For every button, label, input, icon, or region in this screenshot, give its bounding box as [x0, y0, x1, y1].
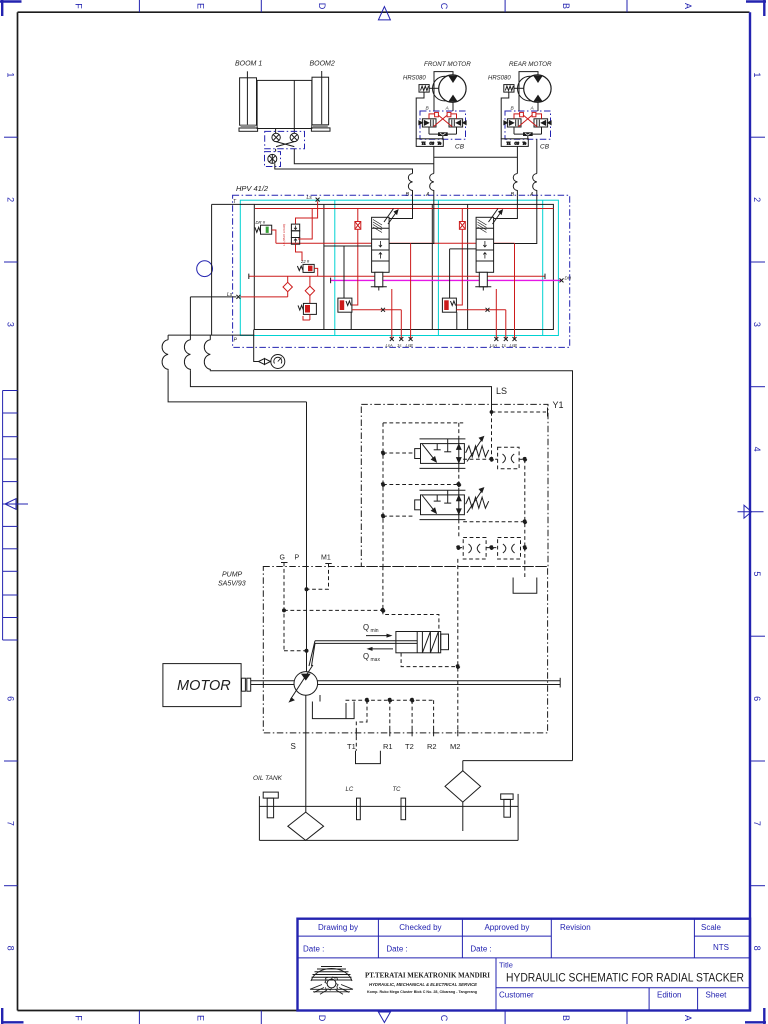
spool valve S1	[372, 217, 390, 272]
zone ticks top	[139, 0, 627, 12]
svg-text:Q: Q	[363, 623, 369, 632]
svg-text:P: P	[234, 338, 238, 344]
pilot cross red front	[429, 112, 457, 126]
svg-text:G: G	[280, 555, 285, 562]
wire A1 internal	[389, 195, 434, 243]
svg-text:LS (MAX LOAD): LS (MAX LOAD)	[282, 224, 286, 246]
svg-text:B: B	[561, 1015, 571, 1021]
svg-text:Drawing by: Drawing by	[318, 923, 358, 932]
svg-text:A: A	[683, 1015, 693, 1021]
orifice O2	[463, 538, 486, 560]
MOTOR box	[163, 664, 241, 707]
company logo	[310, 967, 353, 995]
svg-text:Komp. Ruko Mega Cluster Blok C: Komp. Ruko Mega Cluster Blok C No. 28, C…	[367, 990, 477, 994]
compensator S1	[338, 298, 352, 312]
red pressure rail lower	[249, 274, 545, 279]
red wire Ls to stack	[296, 201, 318, 224]
svg-text:LsA: LsA	[490, 343, 497, 348]
spring housing S1	[371, 272, 387, 290]
label Qmax	[363, 647, 393, 663]
svg-text:A: A	[530, 106, 534, 112]
spool valve S2	[476, 217, 494, 272]
svg-text:DR #: DR #	[256, 220, 266, 225]
red vline left	[298, 209, 312, 240]
zone numbers right	[752, 72, 762, 950]
red rail mid	[276, 242, 515, 244]
tank below T1	[356, 736, 381, 763]
red wire DR out	[272, 230, 276, 243]
svg-text:LC: LC	[346, 787, 354, 793]
hose B2	[513, 174, 517, 196]
svg-text:Date :: Date :	[386, 945, 407, 954]
svg-text:2: 2	[6, 197, 16, 202]
proportional arrows S1	[384, 209, 398, 225]
svg-text:1s: 1s	[397, 343, 402, 348]
pump box	[263, 567, 547, 733]
svg-text:REAR MOTOR: REAR MOTOR	[509, 61, 552, 68]
check valve CV1	[272, 133, 280, 141]
orifice O3	[498, 538, 521, 560]
centring arrow right	[738, 505, 764, 518]
drain collector front	[416, 139, 443, 147]
port labels bottom	[347, 742, 460, 751]
temp gauge TC	[393, 787, 406, 820]
CB valve right rear	[534, 119, 551, 127]
wire B1 internal	[389, 195, 412, 218]
centring arrow left	[2, 499, 28, 510]
return filter	[445, 761, 573, 831]
svg-text:6: 6	[6, 696, 16, 701]
svg-text:2: 2	[752, 197, 762, 202]
wire rear B2 riser	[516, 146, 518, 173]
wire orifice row	[456, 546, 526, 550]
port ticks bottom	[356, 730, 458, 737]
valve REG2	[415, 490, 466, 519]
wire front to rear link	[434, 156, 518, 158]
boom lock valve box	[265, 131, 305, 148]
boom lower valve box	[265, 152, 281, 167]
red Ls drops S1	[392, 243, 411, 339]
CB valve left front	[419, 119, 436, 127]
svg-text:BOOM2: BOOM2	[310, 61, 335, 68]
oil tank body	[259, 794, 518, 841]
cyan section divider 3	[542, 200, 544, 335]
svg-text:max: max	[371, 657, 381, 663]
wire servo bottom pilot	[401, 653, 460, 669]
blue highlight circle	[197, 261, 213, 277]
svg-text:1: 1	[752, 72, 762, 77]
wire S suction	[305, 695, 307, 812]
svg-text:C: C	[439, 3, 449, 10]
svg-text:8: 8	[752, 946, 762, 951]
svg-text:B: B	[511, 106, 515, 112]
drain manifold dashed	[346, 698, 434, 733]
svg-text:7: 7	[752, 821, 762, 826]
pilot cross red rear	[514, 112, 542, 126]
shuttle valve front	[429, 127, 457, 139]
wire B2 internal	[494, 195, 518, 218]
title block	[298, 919, 751, 1011]
wire pilot rail dots	[381, 451, 458, 518]
svg-text:DH: DH	[565, 276, 572, 281]
svg-text:M2: M2	[450, 742, 460, 751]
svg-text:1: 1	[6, 72, 16, 77]
port T stub	[212, 199, 255, 205]
servo rod	[309, 641, 417, 666]
port Ls left	[190, 292, 240, 299]
svg-text:E: E	[195, 1015, 205, 1021]
svg-text:M1: M1	[321, 555, 331, 562]
HPV manifold outline blue	[233, 195, 570, 347]
svg-text:R2: R2	[427, 742, 437, 751]
svg-text:C3: C3	[430, 141, 434, 145]
regulator inner dashed frame	[383, 423, 463, 567]
svg-text:NTS: NTS	[713, 943, 729, 952]
check valve CV3	[268, 154, 277, 163]
servo cylinder	[396, 632, 449, 653]
regulator box	[361, 404, 548, 566]
wire boom drop lines	[276, 129, 295, 134]
suction strainer	[288, 812, 324, 840]
check diamond D1	[283, 276, 292, 297]
svg-text:Title: Title	[499, 961, 513, 970]
svg-text:R1: R1	[383, 742, 393, 751]
black feed S2	[450, 249, 477, 330]
svg-text:LsA: LsA	[386, 343, 393, 348]
proportional arrows S2	[489, 209, 503, 225]
svg-text:Y1: Y1	[553, 400, 564, 410]
svg-text:LsB: LsB	[510, 343, 517, 348]
HPV black housing	[254, 204, 553, 329]
svg-text:B: B	[561, 3, 571, 9]
hose B1	[408, 174, 412, 196]
svg-text:LS: LS	[496, 386, 507, 396]
CB box rear	[505, 111, 551, 139]
label PUMP SA5V/93	[218, 572, 246, 588]
node pump outlet	[305, 649, 309, 653]
svg-text:TC: TC	[393, 787, 402, 793]
red orifice S2	[456, 209, 465, 306]
cylinder BOOM2 barrel	[311, 71, 330, 131]
svg-text:Edition: Edition	[657, 991, 681, 1000]
svg-text:1s: 1s	[502, 343, 507, 348]
CB valve left rear	[504, 119, 521, 127]
svg-text:F: F	[74, 1015, 84, 1021]
spring REG2	[466, 488, 489, 513]
wire regulator pilot to servo	[284, 567, 439, 632]
node LS junction	[490, 408, 548, 417]
case drain bracket	[312, 695, 354, 719]
relief valve bottom left	[298, 303, 316, 320]
svg-text:HYDRAULIC SCHEMATIC FOR RADIAL: HYDRAULIC SCHEMATIC FOR RADIAL STACKER	[506, 973, 744, 985]
svg-text:Q: Q	[363, 652, 369, 661]
svg-text:CB: CB	[455, 144, 465, 151]
housing section line 2	[431, 204, 433, 329]
wire M2 dashed	[457, 559, 459, 733]
red orifice S1	[352, 209, 361, 306]
svg-text:HYDRAULIC, MECHANICAL & ELECTR: HYDRAULIC, MECHANICAL & ELECTRICAL SERVI…	[369, 982, 478, 987]
cylinder BOOM1 barrel	[239, 71, 258, 131]
wire motor rear bottom	[537, 102, 539, 111]
svg-text:Scale: Scale	[701, 923, 722, 932]
svg-text:FRONT MOTOR: FRONT MOTOR	[424, 61, 471, 68]
red Ls drops S2	[496, 243, 514, 339]
svg-text:To: To	[438, 141, 442, 145]
brake front	[419, 85, 439, 93]
pump circle	[288, 665, 317, 703]
port P	[295, 555, 309, 592]
LS stack valve	[291, 224, 299, 244]
wire A2 internal	[494, 195, 537, 243]
svg-text:D: D	[317, 1015, 327, 1022]
hose A2	[533, 174, 537, 196]
left graduation scale	[3, 391, 18, 641]
CB valve right front	[449, 119, 466, 127]
valve DR	[255, 220, 272, 234]
svg-text:S: S	[291, 742, 296, 751]
wire brake drain rear	[501, 92, 509, 139]
check diamond D2	[305, 276, 314, 303]
svg-text:Ls: Ls	[307, 195, 313, 201]
tank symbol regulator	[513, 578, 537, 594]
port G	[280, 555, 288, 651]
svg-text:Checked by: Checked by	[399, 923, 441, 932]
wire rear A2 riser	[536, 139, 538, 173]
spool section 2	[442, 195, 536, 348]
svg-text:T1: T1	[422, 141, 426, 145]
wire to lower valve	[275, 149, 277, 152]
svg-text:BOOM 1: BOOM 1	[235, 61, 262, 68]
red compensator line S2	[456, 308, 505, 312]
port labels S1	[386, 343, 413, 348]
wire Ls hose line	[184, 297, 491, 411]
cylinder body frame	[257, 80, 312, 128]
wire REG1 out	[463, 457, 497, 461]
level gauge LC	[346, 787, 361, 820]
shuttle valve rear	[514, 127, 542, 139]
pilot cross lines	[276, 142, 294, 147]
wire pump outlet	[306, 402, 308, 672]
port labels HPV top	[406, 192, 535, 198]
svg-text:SA5V/93: SA5V/93	[218, 581, 246, 588]
svg-text:4: 4	[752, 447, 762, 452]
wire LS pilot down	[491, 412, 493, 459]
red supply rail	[255, 208, 553, 210]
wire G drain dashed	[284, 650, 307, 652]
wire P hose line	[162, 335, 306, 402]
wire front A riser	[433, 146, 435, 173]
magenta DH line	[331, 276, 572, 284]
wire tank drain	[524, 548, 526, 578]
housing section line 3	[467, 204, 469, 329]
cyan section divider 2	[437, 200, 439, 335]
svg-text:Revision: Revision	[560, 923, 591, 932]
svg-text:A: A	[683, 3, 693, 9]
pressure gauge	[271, 355, 285, 369]
svg-text:D: D	[317, 3, 327, 10]
svg-text:Approved by: Approved by	[484, 923, 529, 932]
svg-text:HRS080: HRS080	[488, 76, 511, 82]
port Ls top	[307, 195, 320, 201]
hose A1	[430, 174, 434, 196]
svg-text:PUMP: PUMP	[222, 572, 243, 579]
svg-text:3: 3	[6, 322, 16, 327]
spring REG1	[466, 437, 489, 462]
svg-text:HPV 41/2: HPV 41/2	[236, 184, 269, 193]
svg-text:8: 8	[6, 946, 16, 951]
wire REG2 out	[463, 520, 526, 524]
shaft	[251, 678, 560, 688]
cyan section divider 1	[334, 200, 336, 335]
svg-text:Date :: Date :	[470, 945, 491, 954]
valve 22	[297, 259, 317, 276]
svg-text:3: 3	[752, 322, 762, 327]
svg-text:HRS080: HRS080	[403, 76, 426, 82]
wire boom to A1 riser	[294, 149, 434, 164]
red wire stack down	[296, 244, 303, 261]
wire mid feedback	[457, 423, 461, 538]
port labels S2	[490, 343, 517, 348]
svg-text:22 #: 22 #	[300, 259, 310, 264]
svg-text:T1: T1	[507, 141, 511, 145]
svg-text:OIL TANK: OIL TANK	[253, 775, 283, 782]
gauge line	[254, 330, 271, 365]
svg-text:Customer: Customer	[499, 991, 534, 1000]
breather left	[263, 792, 278, 818]
housing section line 1	[323, 204, 325, 329]
centring mark bottom	[378, 1012, 390, 1023]
svg-text:A: A	[445, 106, 449, 112]
zone letters top	[74, 3, 694, 10]
svg-text:E: E	[195, 3, 205, 9]
svg-text:5: 5	[752, 571, 762, 576]
spool section 1	[324, 195, 434, 348]
svg-text:P: P	[295, 555, 300, 562]
wire tank hose line	[204, 335, 572, 760]
wire brake drain front	[416, 92, 424, 139]
coupling	[242, 678, 251, 691]
port M1	[307, 555, 332, 590]
svg-text:Date :: Date :	[303, 945, 324, 954]
motor FRONT	[433, 75, 467, 102]
breather right	[501, 794, 513, 817]
orifice O1	[498, 447, 519, 469]
svg-text:Sheet: Sheet	[706, 991, 728, 1000]
motor REAR	[518, 75, 552, 102]
svg-text:7: 7	[6, 821, 16, 826]
svg-text:To: To	[523, 141, 527, 145]
red compensator line S1	[352, 308, 401, 312]
wire motor rear top bypass	[519, 72, 538, 111]
svg-text:CB: CB	[540, 144, 550, 151]
svg-text:B: B	[426, 106, 430, 112]
svg-text:T1: T1	[347, 742, 356, 751]
wire boom valve to HPV B1	[275, 163, 413, 173]
zone numbers left	[6, 72, 16, 950]
valve REG1	[415, 439, 466, 469]
zone ticks left	[4, 137, 18, 886]
compensator S2	[442, 298, 456, 312]
zone letters bottom	[74, 1015, 694, 1022]
drain collector rear	[501, 139, 528, 147]
port X marks S1	[390, 337, 413, 341]
wire motor front bottom	[452, 102, 454, 111]
svg-text:6: 6	[752, 696, 762, 701]
black feed S1	[324, 246, 372, 330]
HPV cyan envelope	[240, 200, 558, 335]
svg-text:PT.TERATAI MEKATRONIK MANDIRI: PT.TERATAI MEKATRONIK MANDIRI	[365, 972, 490, 980]
centring mark top	[378, 7, 390, 20]
label Qmin	[363, 623, 393, 638]
red wire Ls port to D1	[240, 296, 287, 298]
check valve CV2	[290, 133, 298, 141]
svg-text:T2: T2	[405, 742, 414, 751]
zone ticks bottom	[139, 1011, 627, 1024]
svg-text:C3: C3	[515, 141, 519, 145]
svg-text:C: C	[439, 1015, 449, 1022]
wire O1 right	[519, 457, 527, 547]
zone ticks right	[750, 137, 765, 886]
svg-text:min: min	[371, 628, 379, 634]
wire T line left	[168, 204, 254, 335]
CB box front	[420, 111, 466, 139]
wire motor front top bypass	[434, 72, 453, 111]
spring housing S2	[475, 272, 491, 290]
port X marks S2	[494, 337, 516, 341]
brake rear	[504, 85, 524, 93]
svg-text:LsB: LsB	[406, 343, 413, 348]
svg-text:F: F	[74, 3, 84, 9]
svg-text:MOTOR: MOTOR	[177, 678, 231, 694]
